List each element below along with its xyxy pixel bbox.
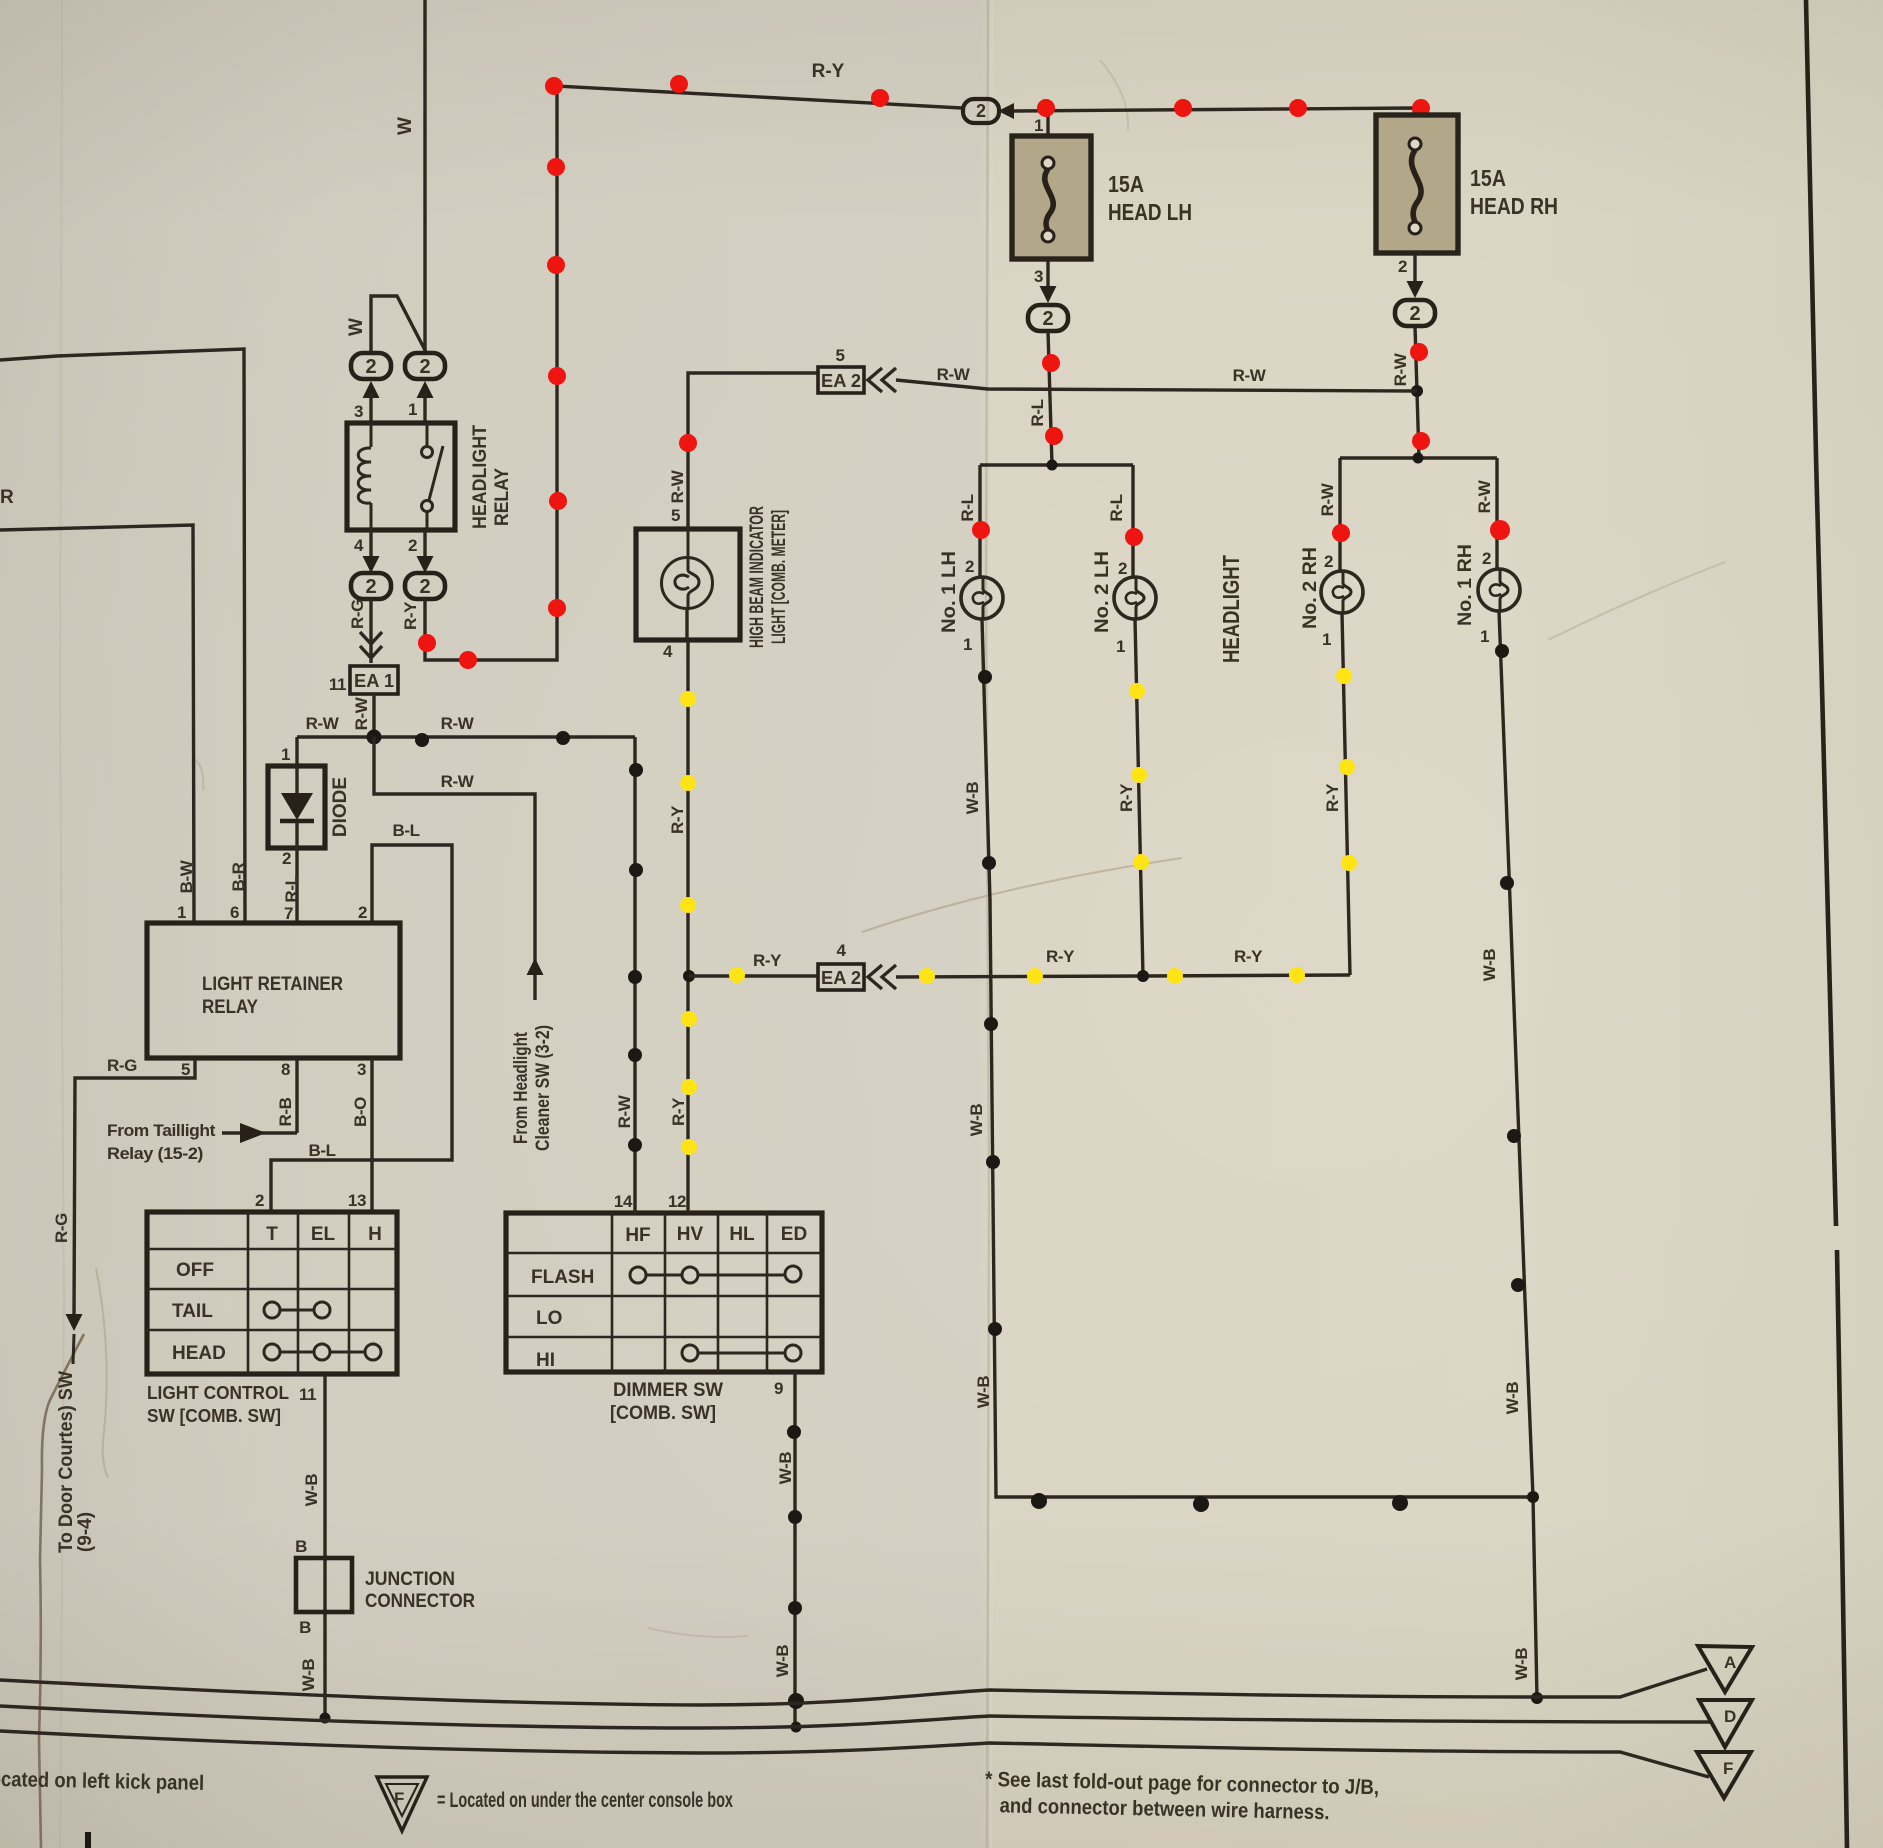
svg-text:R-Y: R-Y bbox=[1046, 947, 1075, 966]
light control row labels OFF TAIL HEAD bbox=[172, 1260, 226, 1364]
wire LH pair bracket bbox=[980, 465, 1133, 577]
wire W-B dimmer pin 9 to ground bus bbox=[793, 1372, 796, 1728]
svg-text:F: F bbox=[1723, 1759, 1733, 1778]
svg-text:HV: HV bbox=[677, 1224, 704, 1245]
note see last fold-out page bbox=[984, 1768, 1379, 1825]
svg-text:R-G: R-G bbox=[52, 1213, 71, 1243]
headlight relay box bbox=[347, 423, 455, 530]
svg-text:EA 1: EA 1 bbox=[354, 671, 394, 691]
svg-text:To Door Courtes) SW: To Door Courtes) SW bbox=[56, 1371, 77, 1553]
arrowhead into connector pin 3 bbox=[363, 381, 380, 398]
svg-text:W-B: W-B bbox=[1480, 949, 1499, 982]
label LIGHT CONTROL SW [COMB. SW] bbox=[147, 1383, 289, 1426]
pin 2 labels above bulbs bbox=[965, 549, 1491, 578]
svg-text:No. 1 LH: No. 1 LH bbox=[939, 551, 960, 633]
svg-text:W-B: W-B bbox=[773, 1645, 792, 1678]
svg-text:W-B: W-B bbox=[963, 782, 982, 815]
wire R-W high beam pin 5 to EA2 bbox=[688, 373, 818, 527]
red marker dots above LH bulbs bbox=[972, 521, 1143, 546]
svg-text:R-W: R-W bbox=[937, 365, 971, 384]
svg-text:13: 13 bbox=[348, 1191, 366, 1210]
symbol F triangle legend bbox=[377, 1777, 427, 1831]
wire R-W fuse to RH headlight pair bbox=[1415, 326, 1419, 458]
wire fuse RH output bbox=[1413, 253, 1416, 282]
svg-text:R-G: R-G bbox=[107, 1056, 137, 1075]
node W-B to ground bus bbox=[1531, 1692, 1543, 1704]
svg-text:RELAY: RELAY bbox=[492, 468, 513, 526]
svg-text:JUNCTION: JUNCTION bbox=[365, 1569, 455, 1590]
arrowhead out of relay pin 2 bbox=[417, 556, 434, 573]
svg-text:8: 8 bbox=[281, 1060, 290, 1079]
svg-text:R-L: R-L bbox=[282, 875, 301, 902]
svg-text:2: 2 bbox=[282, 849, 291, 868]
svg-text:1: 1 bbox=[1322, 630, 1331, 649]
svg-text:2: 2 bbox=[255, 1191, 264, 1210]
svg-text:Cleaner SW (3-2): Cleaner SW (3-2) bbox=[533, 1025, 554, 1151]
svg-text:W: W bbox=[346, 318, 367, 336]
svg-text:5: 5 bbox=[181, 1060, 190, 1079]
svg-text:R-L: R-L bbox=[1107, 494, 1126, 521]
wire fuse row top feed bbox=[1014, 108, 1414, 140]
svg-text:R: R bbox=[0, 487, 14, 508]
wire B-L retainer pin 2 loop bbox=[271, 845, 452, 1212]
wire harness edge line (right) bbox=[1806, 0, 1847, 1848]
svg-text:4: 4 bbox=[354, 536, 364, 555]
svg-text:R-W: R-W bbox=[1475, 479, 1494, 513]
wire W-B light control pin 11 to ground bus bbox=[323, 1374, 326, 1718]
svg-text:HEAD RH: HEAD RH bbox=[1470, 193, 1558, 219]
svg-text:HL: HL bbox=[729, 1224, 755, 1245]
svg-text:2: 2 bbox=[1482, 549, 1491, 568]
wire ground bus D bbox=[0, 1706, 1712, 1728]
wire connector to relay pin 1 bbox=[423, 393, 426, 423]
svg-text:2: 2 bbox=[358, 903, 367, 922]
dimmer column headers HF HV HL ED bbox=[625, 1224, 807, 1246]
label LIGHT RETAINER RELAY bbox=[202, 974, 343, 1018]
paper wrinkles bbox=[96, 60, 1725, 1637]
svg-text:R-W: R-W bbox=[352, 696, 371, 730]
wire RH pair bracket bbox=[1340, 458, 1497, 571]
page connector triangle A bbox=[1698, 1646, 1752, 1692]
wire B-W from left edge to retainer pin 1 bbox=[0, 525, 194, 923]
svg-text:FLASH: FLASH bbox=[531, 1267, 594, 1288]
svg-text:R-W: R-W bbox=[668, 469, 687, 503]
svg-text:R-L: R-L bbox=[958, 494, 977, 521]
wire R-Y high beam pin 4 to dimmer pin 12 bbox=[687, 609, 688, 1213]
wire fuse LH output bbox=[1046, 259, 1049, 287]
svg-text:HF: HF bbox=[625, 1225, 650, 1246]
svg-text:From Headlight: From Headlight bbox=[511, 1031, 532, 1144]
light control TAIL row contacts bbox=[264, 1302, 330, 1318]
connector EA2 pin 5 bbox=[818, 346, 864, 393]
connector 2 (pin 4 output) bbox=[351, 573, 391, 599]
svg-text:2: 2 bbox=[965, 557, 974, 576]
red marker dots on R-W RH bbox=[1410, 343, 1430, 450]
double chevron into EA2 pin 5 bbox=[868, 368, 896, 392]
wire ground bus F bbox=[0, 1731, 1709, 1777]
svg-text:W-B: W-B bbox=[1512, 1648, 1531, 1681]
red marker dots above RH bulbs bbox=[1332, 520, 1510, 542]
wire R-L fuse to LH headlight pair bbox=[1048, 331, 1052, 465]
svg-text:6: 6 bbox=[230, 903, 239, 922]
wire R-G down to EA1 bbox=[369, 599, 372, 663]
svg-text:1: 1 bbox=[177, 903, 186, 922]
svg-text:1: 1 bbox=[1034, 116, 1043, 135]
node R-Y junction to EA2 pin 4 bbox=[683, 970, 695, 982]
label From Headlight Cleaner SW (3-2) bbox=[511, 1025, 554, 1151]
svg-text:HEADLIGHT: HEADLIGHT bbox=[470, 425, 491, 529]
svg-text:[COMB. SW]: [COMB. SW] bbox=[610, 1403, 716, 1424]
svg-text:2: 2 bbox=[1118, 559, 1127, 578]
connector 2 (fuse LH output) bbox=[1028, 305, 1068, 331]
svg-text:Relay (15-2): Relay (15-2) bbox=[107, 1144, 203, 1163]
svg-text:HEADLIGHT: HEADLIGHT bbox=[1218, 555, 1244, 663]
svg-text:D: D bbox=[1724, 1707, 1736, 1726]
svg-text:EA 2: EA 2 bbox=[821, 968, 861, 988]
wire B-O retainer pin 3 to light control pin 13 bbox=[370, 1058, 373, 1212]
headlight bulb No.1 RH bbox=[1478, 569, 1520, 611]
svg-text:R-L: R-L bbox=[1028, 399, 1047, 426]
wire R-W horizontal distribution bbox=[297, 735, 635, 738]
headlight bulb No.2 LH bbox=[1114, 577, 1156, 619]
connector 2 with arrow (R-Y feed to fuse row) bbox=[963, 99, 999, 123]
double chevron arrow into EA1 bbox=[360, 632, 382, 658]
node LH bracket junction bbox=[1047, 460, 1058, 471]
svg-text:W: W bbox=[395, 117, 416, 135]
svg-text:R-B: R-B bbox=[276, 1097, 295, 1126]
label HIGH BEAM INDICATOR LIGHT [COMB. METER] bbox=[747, 506, 790, 648]
label To Door Courtesy SW (9-4) bbox=[56, 1371, 96, 1553]
arrowhead from headlight cleaner SW bbox=[527, 958, 544, 975]
svg-text:T: T bbox=[266, 1224, 278, 1245]
svg-text:B-L: B-L bbox=[308, 1141, 335, 1160]
svg-text:W-B: W-B bbox=[974, 1376, 993, 1409]
svg-text:9: 9 bbox=[774, 1379, 783, 1398]
red marker dot on pin 5 lead bbox=[679, 434, 697, 452]
red marker dots on R-L bbox=[1042, 354, 1063, 445]
svg-text:3: 3 bbox=[1034, 267, 1043, 286]
wire W branch to relay coil connector bbox=[371, 296, 426, 353]
node W-B merge bbox=[1527, 1491, 1539, 1503]
svg-text:HIGH BEAM INDICATOR: HIGH BEAM INDICATOR bbox=[747, 506, 768, 648]
wire relay pin 4 to connector bbox=[369, 530, 372, 557]
svg-text:SW [COMB. SW]: SW [COMB. SW] bbox=[147, 1406, 281, 1426]
svg-text:B-R: B-R bbox=[229, 862, 248, 891]
label 15A HEAD LH bbox=[1108, 171, 1192, 225]
yellow marker dots on R-Y headlight return bbox=[729, 967, 1305, 984]
svg-text:OFF: OFF bbox=[176, 1260, 214, 1281]
yellow marker dots on R-Y pin 12 lead bbox=[680, 691, 697, 1155]
svg-text:R-W: R-W bbox=[441, 772, 475, 791]
svg-text:B-O: B-O bbox=[351, 1097, 370, 1127]
headlight relay coil bbox=[358, 423, 371, 530]
black marker dots on W-B No.1 LH return bbox=[978, 670, 1408, 1512]
wire W-B No.1 RH return bbox=[1499, 611, 1537, 1698]
diode D1 bbox=[268, 766, 325, 848]
svg-text:3: 3 bbox=[354, 402, 363, 421]
svg-text:HI: HI bbox=[536, 1350, 555, 1371]
red marker dots on R-Y feed bbox=[418, 75, 889, 669]
svg-text:R-W: R-W bbox=[1233, 366, 1267, 385]
svg-text:LIGHT RETAINER: LIGHT RETAINER bbox=[202, 974, 343, 995]
svg-text:F: F bbox=[394, 1789, 404, 1808]
yellow marker dots on R-Y No.2 LH bbox=[1129, 683, 1149, 870]
red marker dots on fuse feed bbox=[1037, 99, 1430, 117]
arrow line from taillight relay bbox=[222, 1131, 297, 1134]
wire R-L diode to retainer relay pin 7 bbox=[295, 848, 298, 923]
light control column headers T EL H bbox=[266, 1224, 382, 1245]
svg-text:1: 1 bbox=[281, 745, 290, 764]
wire R-G pin 5 to door courtesy SW bbox=[74, 1058, 195, 1318]
page connector triangle F bbox=[1697, 1752, 1751, 1798]
wire relay pin 2 to connector bbox=[423, 530, 426, 557]
label 15A HEAD RH bbox=[1470, 165, 1558, 219]
svg-text:R-Y: R-Y bbox=[1234, 947, 1263, 966]
arrowhead to door courtesy SW bbox=[66, 1314, 83, 1331]
fuse 15A HEAD LH bbox=[1012, 136, 1091, 259]
arrowhead fuse LH output bbox=[1040, 286, 1057, 303]
page connector triangle D bbox=[1699, 1700, 1752, 1747]
arrowhead out of relay pin 4 bbox=[363, 556, 380, 573]
connector 2 (pin 2 output) bbox=[405, 573, 445, 599]
svg-text:HEAD: HEAD bbox=[172, 1343, 226, 1364]
black marker dots on R-W pin 14 lead bbox=[628, 763, 643, 1152]
svg-text:H: H bbox=[368, 1224, 382, 1245]
wire R-Y from headlights to EA2 pin 4 bbox=[896, 975, 1350, 977]
high beam indicator bulb bbox=[662, 527, 713, 609]
svg-text:R-W: R-W bbox=[1391, 352, 1410, 386]
svg-text:From Taillight: From Taillight bbox=[107, 1121, 216, 1140]
svg-text:R-G: R-G bbox=[348, 599, 367, 629]
wire R-Y No.2 RH return bbox=[1342, 613, 1350, 975]
wire R-B retainer pin 8 bbox=[295, 1058, 298, 1133]
paper tear bottom left bbox=[39, 1334, 84, 1848]
svg-text:A: A bbox=[1724, 1653, 1736, 1672]
svg-text:11: 11 bbox=[299, 1385, 316, 1404]
fuse 15A HEAD RH bbox=[1376, 115, 1458, 253]
svg-text:LIGHT CONTROL: LIGHT CONTROL bbox=[147, 1383, 289, 1403]
svg-text:LIGHT [COMB. METER]: LIGHT [COMB. METER] bbox=[769, 510, 790, 644]
connector EA2 pin 4 bbox=[818, 941, 864, 990]
svg-text:5: 5 bbox=[835, 346, 844, 365]
node RH bracket junction bbox=[1413, 453, 1424, 464]
svg-text:12: 12 bbox=[668, 1192, 686, 1211]
svg-text:W-B: W-B bbox=[302, 1474, 321, 1507]
wire ground bus A bbox=[0, 1669, 1707, 1705]
dimmer HI row contacts bbox=[682, 1345, 801, 1361]
paper fold crease bbox=[60, 0, 993, 1848]
svg-text:CONNECTOR: CONNECTOR bbox=[365, 1591, 475, 1612]
svg-text:1: 1 bbox=[963, 635, 972, 654]
wire R-Y to EA2 pin 4 bbox=[689, 974, 818, 977]
svg-text:R-Y: R-Y bbox=[401, 601, 420, 630]
svg-text:B: B bbox=[295, 1537, 307, 1556]
svg-text:TAIL: TAIL bbox=[172, 1301, 213, 1322]
wire R-Y relay pin2 connector to red-dot riser bbox=[425, 86, 962, 660]
pin 1 labels below bulbs bbox=[963, 627, 1489, 656]
label JUNCTION CONNECTOR bbox=[365, 1569, 475, 1612]
connector 2 (fuse RH output) bbox=[1395, 300, 1435, 326]
svg-text:B-L: B-L bbox=[392, 821, 419, 840]
svg-text:2: 2 bbox=[1398, 257, 1407, 276]
wire connector to relay pin 3 bbox=[369, 393, 372, 423]
svg-text:R-W: R-W bbox=[306, 714, 340, 733]
double chevron into EA2 pin 4 bbox=[868, 965, 896, 989]
svg-text:15A: 15A bbox=[1470, 165, 1506, 191]
svg-text:DIMMER SW: DIMMER SW bbox=[613, 1380, 723, 1401]
light control switch table bbox=[147, 1212, 397, 1374]
svg-text:5: 5 bbox=[671, 506, 680, 525]
svg-text:DIODE: DIODE bbox=[330, 777, 351, 837]
svg-text:(9-4): (9-4) bbox=[75, 1512, 96, 1552]
svg-text:No. 2 RH: No. 2 RH bbox=[1300, 547, 1321, 629]
junction connector bbox=[296, 1558, 352, 1612]
wire W (vertical feed from top) bbox=[423, 0, 426, 353]
svg-text:1: 1 bbox=[1480, 627, 1489, 646]
svg-text:W-B: W-B bbox=[1503, 1382, 1522, 1415]
svg-text:4: 4 bbox=[836, 941, 846, 960]
svg-text:= Located on under the center: = Located on under the center console bo… bbox=[437, 1789, 733, 1812]
svg-text:R-W: R-W bbox=[615, 1094, 634, 1128]
svg-text:W-B: W-B bbox=[299, 1659, 318, 1692]
connector 2 (relay pin 3 side) bbox=[351, 353, 391, 379]
svg-text:R-W: R-W bbox=[441, 714, 475, 733]
arrowhead into connector pin 1 bbox=[417, 381, 434, 398]
svg-text:ED: ED bbox=[781, 1224, 807, 1245]
wire R-Y No.2 LH return bbox=[1135, 619, 1143, 976]
connector EA1 bbox=[350, 666, 398, 694]
svg-text:7: 7 bbox=[284, 904, 293, 923]
headlight relay switch contacts bbox=[422, 423, 444, 530]
svg-text:B-W: B-W bbox=[177, 859, 196, 893]
svg-text:* Located on left kick panel: * Located on left kick panel bbox=[0, 1767, 204, 1795]
svg-text:2: 2 bbox=[1324, 552, 1333, 571]
headlight bulb No.1 LH bbox=[961, 577, 1003, 619]
svg-text:R-Y: R-Y bbox=[1117, 783, 1136, 812]
svg-text:EA 2: EA 2 bbox=[821, 371, 861, 391]
svg-text:1: 1 bbox=[408, 400, 417, 419]
dimmer switch table bbox=[506, 1213, 822, 1372]
wire R-W from EA1 down bbox=[372, 694, 375, 737]
svg-text:W-B: W-B bbox=[776, 1452, 795, 1485]
high beam indicator light box bbox=[636, 529, 740, 640]
yellow marker dots on R-Y No.2 RH bbox=[1336, 668, 1357, 871]
wire R-W to dimmer pin 14 bbox=[633, 737, 636, 1213]
wire W-B No.1 LH return bbox=[982, 619, 1533, 1497]
svg-text:No. 2 LH: No. 2 LH bbox=[1092, 551, 1113, 633]
wire R-W branch to headlight cleaner switch bbox=[374, 737, 535, 1000]
junction dot pin 11 lead to bus bbox=[320, 1713, 331, 1724]
svg-text:B: B bbox=[299, 1618, 311, 1637]
light control HEAD row contacts bbox=[264, 1344, 381, 1360]
svg-text:LO: LO bbox=[536, 1308, 562, 1329]
label HEADLIGHT RELAY bbox=[470, 425, 513, 529]
label From Taillight Relay (15-2) bbox=[107, 1121, 216, 1163]
junction dots on R-W distribution bbox=[367, 730, 571, 748]
wire R-W corner down to diode pin 1 bbox=[295, 737, 298, 766]
svg-text:EL: EL bbox=[311, 1224, 336, 1245]
black marker dots on pin 9 lead bbox=[787, 1425, 804, 1709]
svg-text:RELAY: RELAY bbox=[202, 997, 258, 1018]
svg-text:R-Y: R-Y bbox=[668, 805, 687, 834]
svg-text:1: 1 bbox=[1116, 637, 1125, 656]
connector 2 (relay pin 1 side) bbox=[405, 353, 445, 379]
black marker dots on W-B No.1 RH return bbox=[1495, 644, 1525, 1292]
headlight bulb No.2 RH bbox=[1321, 571, 1363, 613]
svg-text:11: 11 bbox=[329, 675, 346, 694]
svg-text:HEAD LH: HEAD LH bbox=[1108, 199, 1192, 225]
svg-text:W-B: W-B bbox=[967, 1104, 986, 1137]
svg-text:2: 2 bbox=[408, 536, 417, 555]
svg-text:3: 3 bbox=[357, 1060, 366, 1079]
svg-text:R-W: R-W bbox=[1318, 482, 1337, 516]
wire B-R from left edge to retainer pin 6 bbox=[0, 349, 245, 923]
light retainer relay box bbox=[147, 923, 400, 1058]
wire R-W from EA2 pin 5 to RH fuse lead bbox=[896, 380, 1417, 391]
svg-text:15A: 15A bbox=[1108, 171, 1144, 197]
page mark bottom left bbox=[85, 1832, 91, 1848]
dimmer row labels FLASH LO HI bbox=[531, 1267, 594, 1371]
junction dot pin 9 lead to bus bbox=[791, 1722, 802, 1733]
svg-text:R-Y: R-Y bbox=[812, 61, 845, 82]
node R-W junction at EA2 line bbox=[1411, 385, 1423, 397]
svg-text:No. 1 RH: No. 1 RH bbox=[1455, 544, 1476, 626]
svg-text:R-Y: R-Y bbox=[669, 1097, 688, 1126]
dimmer FLASH row contacts bbox=[630, 1266, 801, 1283]
arrowhead fuse RH output bbox=[1407, 281, 1424, 298]
node R-Y No.2 LH to return line bbox=[1137, 970, 1149, 982]
label DIMMER SW [COMB. SW] bbox=[610, 1380, 723, 1424]
wire stub below arrow bbox=[73, 1334, 74, 1364]
svg-text:R-Y: R-Y bbox=[1323, 783, 1342, 812]
svg-text:14: 14 bbox=[614, 1192, 633, 1211]
svg-text:R-Y: R-Y bbox=[753, 951, 782, 970]
svg-text:4: 4 bbox=[663, 642, 673, 661]
